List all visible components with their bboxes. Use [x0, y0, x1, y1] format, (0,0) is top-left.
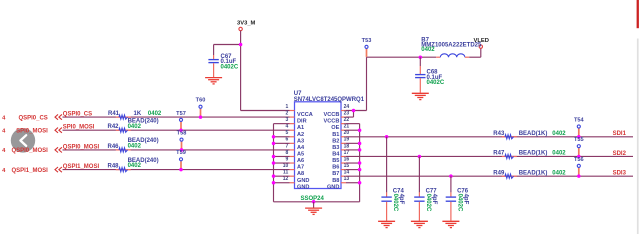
svg-text:10: 10: [283, 163, 289, 169]
svg-text:A7: A7: [297, 165, 304, 171]
svg-text:0402C: 0402C: [221, 65, 239, 71]
svg-text:A2: A2: [297, 132, 304, 138]
svg-text:0402C: 0402C: [457, 194, 463, 212]
svg-text:5: 5: [286, 130, 289, 136]
svg-text:A1: A1: [297, 125, 304, 131]
svg-text:OE: OE: [331, 125, 339, 131]
svg-text:VCCB: VCCB: [324, 119, 340, 125]
svg-text:R47: R47: [493, 151, 505, 157]
svg-text:T54: T54: [574, 117, 585, 123]
svg-text:R41: R41: [108, 111, 120, 117]
svg-text:R42: R42: [107, 124, 119, 130]
svg-text:B6: B6: [332, 165, 339, 171]
svg-text:9: 9: [286, 156, 289, 162]
svg-text:24: 24: [344, 104, 350, 110]
svg-text:DIR: DIR: [297, 119, 307, 125]
svg-text:0402: 0402: [128, 163, 142, 169]
svg-text:VCCB: VCCB: [324, 112, 340, 118]
svg-text:B4: B4: [332, 152, 340, 158]
svg-text:0402: 0402: [421, 47, 435, 53]
svg-text:QSPI0_CS: QSPI0_CS: [18, 115, 47, 121]
svg-text:12: 12: [283, 176, 289, 182]
svg-text:QSPI0_MOSI: QSPI0_MOSI: [63, 144, 100, 150]
svg-text:BEAD(1K): BEAD(1K): [519, 151, 548, 157]
svg-text:15: 15: [344, 163, 350, 169]
svg-text:SDI3: SDI3: [613, 171, 627, 177]
svg-text:SN74LVC8T245QPWRQ1: SN74LVC8T245QPWRQ1: [294, 97, 365, 103]
svg-text:A5: A5: [297, 152, 304, 158]
svg-text:4pF: 4pF: [398, 194, 404, 205]
svg-text:0402: 0402: [128, 144, 142, 150]
svg-text:VCCA: VCCA: [297, 112, 313, 118]
svg-text:1K: 1K: [134, 111, 142, 117]
svg-text:T60: T60: [196, 98, 206, 104]
svg-text:0402: 0402: [552, 131, 566, 137]
svg-text:B5: B5: [332, 158, 339, 164]
svg-text:4: 4: [2, 168, 6, 174]
svg-text:0402: 0402: [148, 111, 162, 117]
svg-text:4: 4: [2, 148, 6, 154]
svg-text:GND: GND: [297, 184, 309, 190]
svg-text:GND: GND: [327, 184, 339, 190]
svg-text:SDI2: SDI2: [613, 151, 627, 157]
svg-text:T59: T59: [176, 150, 186, 156]
svg-text:2: 2: [286, 110, 289, 116]
svg-text:4: 4: [2, 115, 6, 121]
svg-text:0402: 0402: [128, 124, 142, 130]
svg-text:BEAD(1K): BEAD(1K): [519, 170, 548, 176]
svg-text:11: 11: [283, 170, 289, 176]
svg-text:4: 4: [286, 124, 289, 130]
svg-text:21: 21: [344, 124, 350, 130]
svg-text:4pF: 4pF: [431, 194, 437, 205]
svg-text:14: 14: [344, 170, 350, 176]
svg-text:BEAD(1K): BEAD(1K): [519, 131, 548, 137]
svg-text:A3: A3: [297, 138, 304, 144]
svg-text:0402C: 0402C: [427, 80, 445, 86]
svg-text:0402C: 0402C: [425, 194, 431, 212]
svg-text:A4: A4: [297, 145, 305, 151]
svg-text:20: 20: [344, 130, 350, 136]
svg-text:19: 19: [344, 137, 350, 143]
svg-text:7: 7: [286, 143, 289, 149]
svg-text:1: 1: [286, 104, 289, 110]
svg-text:T58: T58: [177, 131, 187, 137]
svg-text:T55: T55: [574, 137, 584, 143]
svg-text:T57: T57: [176, 111, 186, 117]
svg-text:6: 6: [286, 137, 289, 143]
svg-text:18: 18: [344, 143, 350, 149]
svg-text:8: 8: [286, 150, 289, 156]
svg-text:QSPI1_MOSI: QSPI1_MOSI: [63, 164, 100, 170]
svg-text:GND: GND: [297, 178, 309, 184]
svg-text:B1: B1: [332, 132, 339, 138]
svg-text:T56: T56: [574, 157, 584, 163]
svg-text:B2: B2: [332, 138, 339, 144]
svg-text:4: 4: [2, 128, 6, 134]
svg-text:B8: B8: [332, 178, 339, 184]
svg-text:A6: A6: [297, 158, 304, 164]
svg-text:QSPI1_MOSI: QSPI1_MOSI: [11, 168, 48, 174]
svg-text:0402C: 0402C: [392, 194, 398, 212]
svg-text:3V3_M: 3V3_M: [237, 20, 256, 26]
svg-text:0402: 0402: [552, 151, 566, 157]
svg-text:17: 17: [344, 150, 350, 156]
svg-text:22: 22: [344, 117, 350, 123]
svg-text:0402: 0402: [552, 170, 566, 176]
svg-text:16: 16: [344, 156, 350, 162]
svg-text:23: 23: [344, 110, 350, 116]
svg-text:SPI0_MOSI: SPI0_MOSI: [63, 125, 95, 131]
svg-text:SPI0_MOSI: SPI0_MOSI: [16, 128, 48, 134]
svg-text:U7: U7: [294, 91, 302, 97]
svg-text:SDI1: SDI1: [613, 131, 627, 137]
svg-text:3: 3: [286, 117, 289, 123]
svg-text:R49: R49: [493, 170, 505, 176]
svg-text:R46: R46: [107, 144, 119, 150]
svg-text:QSPI0_MOSI: QSPI0_MOSI: [11, 148, 48, 154]
svg-text:A8: A8: [297, 171, 304, 177]
svg-text:4pF: 4pF: [463, 194, 469, 205]
svg-text:T53: T53: [362, 38, 372, 44]
svg-text:R48: R48: [107, 164, 119, 170]
svg-text:B3: B3: [332, 145, 339, 151]
svg-text:13: 13: [344, 176, 350, 182]
svg-text:R43: R43: [493, 131, 505, 137]
svg-text:B7: B7: [332, 171, 339, 177]
svg-text:QSPI0_CS: QSPI0_CS: [63, 111, 92, 117]
